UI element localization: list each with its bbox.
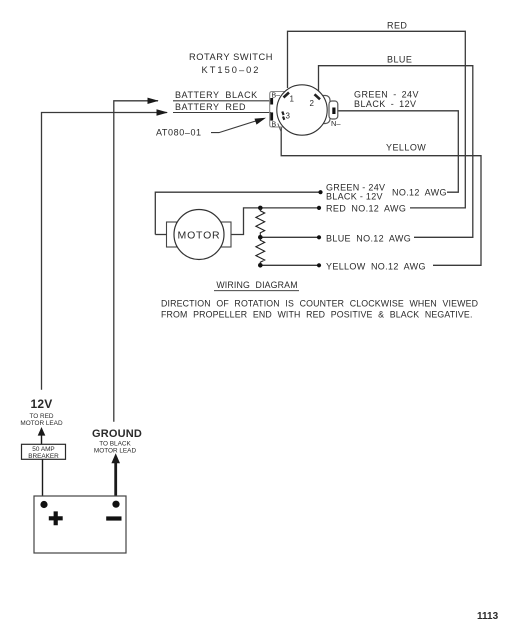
svg-text:BLUE NO.12 AWG: BLUE NO.12 AWG	[326, 234, 411, 244]
svg-text:TO RED: TO RED	[29, 413, 53, 420]
svg-text:GROUND: GROUND	[92, 428, 142, 440]
svg-text:3: 3	[286, 112, 291, 121]
svg-text:1: 1	[290, 95, 295, 104]
svg-text:MOTOR LEAD: MOTOR LEAD	[20, 420, 63, 427]
wire blue row	[260, 236, 318, 238]
svg-text:RED: RED	[387, 21, 407, 31]
breaker box 50 AMP BREAKER	[22, 444, 66, 459]
battery negative terminal dot	[112, 501, 119, 508]
svg-text:BREAKER: BREAKER	[28, 453, 59, 460]
wire RED top horizontal	[288, 31, 466, 208]
svg-text:RED NO.12 AWG: RED NO.12 AWG	[326, 204, 406, 214]
svg-text:BATTERY BLACK: BATTERY BLACK	[175, 90, 258, 100]
svg-text:BLACK - 12V: BLACK - 12V	[326, 192, 383, 202]
leader from B to yellow wire	[278, 124, 282, 134]
wire motor left stub	[155, 234, 166, 236]
junction dot red row	[317, 206, 321, 210]
junction dot red row left	[258, 206, 263, 211]
svg-text:WIRING DIAGRAM: WIRING DIAGRAM	[216, 280, 297, 290]
leader line AT080-01 arrow to connector	[211, 119, 261, 132]
wire breaker to battery positive	[42, 459, 44, 504]
wire motor right to red row	[231, 208, 318, 235]
terminal 2 slot	[315, 94, 321, 99]
svg-text:2: 2	[310, 99, 315, 108]
arrow up to 12V label	[41, 432, 43, 444]
rotary switch left connector bracket	[270, 92, 285, 128]
terminal 3 slots	[282, 112, 283, 116]
terminal B bar	[270, 112, 273, 120]
junction dot row1	[318, 190, 322, 194]
battery minus symbol	[106, 516, 121, 520]
junction dot blue row left	[258, 235, 263, 240]
svg-text:NO.12 AWG: NO.12 AWG	[392, 188, 447, 198]
wire motor top (green/black row)	[155, 192, 319, 234]
terminal B- bar	[270, 98, 273, 105]
wire GREEN/BLACK from N- terminal	[338, 111, 459, 192]
rotary switch body circle	[277, 85, 327, 135]
svg-text:1113: 1113	[477, 611, 499, 622]
svg-text:ROTARY SWITCH: ROTARY SWITCH	[189, 52, 273, 62]
svg-text:B–: B–	[272, 93, 281, 100]
rotary switch right connector inner	[329, 101, 338, 119]
svg-text:BATTERY RED: BATTERY RED	[175, 102, 246, 112]
svg-text:BLUE: BLUE	[387, 55, 412, 65]
wire YELLOW from switch bottom	[281, 128, 481, 266]
svg-text:B: B	[272, 122, 277, 129]
wire battery black underline to switch	[173, 100, 271, 102]
svg-text:50 AMP: 50 AMP	[32, 446, 54, 453]
svg-text:MOTOR: MOTOR	[178, 230, 221, 242]
thick ground arrow up	[114, 461, 117, 504]
svg-text:BLACK - 12V: BLACK - 12V	[354, 99, 416, 109]
motor body circle	[174, 210, 224, 260]
battery box	[34, 496, 126, 553]
battery positive terminal dot	[40, 501, 47, 508]
svg-text:GREEN - 24V: GREEN - 24V	[354, 90, 419, 100]
junction dot blue row	[317, 235, 321, 239]
svg-text:N–: N–	[331, 119, 341, 128]
svg-text:AT080–01: AT080–01	[156, 128, 202, 138]
resistor chain vertical with zigzags	[256, 208, 265, 265]
svg-text:YELLOW NO.12 AWG: YELLOW NO.12 AWG	[326, 262, 426, 272]
junction dot yellow row	[317, 263, 321, 267]
wire BLUE top horizontal	[319, 66, 473, 238]
svg-text:YELLOW: YELLOW	[386, 143, 426, 153]
svg-text:12V: 12V	[31, 397, 53, 411]
svg-text:DIRECTION OF ROTATION IS COUNT: DIRECTION OF ROTATION IS COUNTER CLOCKWI…	[161, 299, 478, 309]
motor left brush	[167, 222, 177, 247]
svg-text:FROM PROPELLER END WITH RED PO: FROM PROPELLER END WITH RED POSITIVE & B…	[161, 310, 473, 320]
right connector terminal mark	[332, 108, 335, 115]
wire battery red lead with arrow	[42, 113, 168, 390]
wire battery red underline to switch	[173, 112, 271, 114]
battery plus symbol	[49, 511, 63, 525]
motor right brush	[221, 222, 231, 247]
junction dot yellow row left	[258, 263, 263, 268]
svg-text:MOTOR LEAD: MOTOR LEAD	[94, 448, 137, 455]
svg-text:KT150–02: KT150–02	[202, 65, 261, 75]
wire yellow row	[260, 264, 318, 266]
rotary switch right connector outer	[318, 96, 330, 124]
svg-text:TO BLACK: TO BLACK	[99, 441, 131, 448]
wire battery black lead with arrow	[114, 101, 158, 422]
terminal 1 slot	[284, 93, 290, 98]
